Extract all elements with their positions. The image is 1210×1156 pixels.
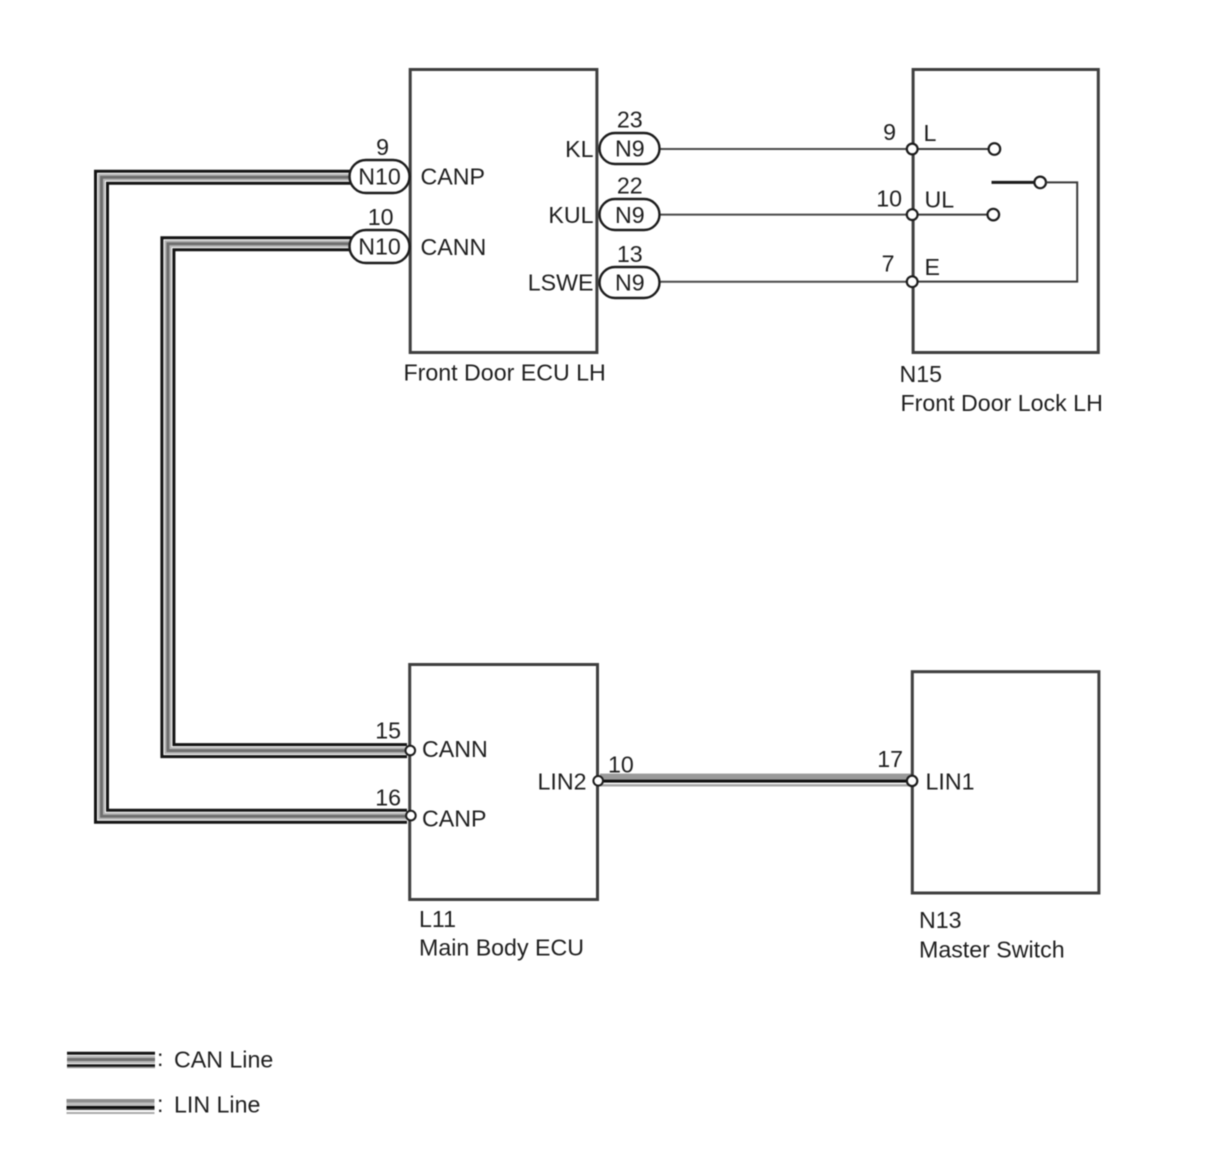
node fixed contact circle L <box>989 143 1001 155</box>
svg-text:15: 15 <box>375 718 401 744</box>
svg-text:22: 22 <box>617 173 643 199</box>
legend CAN line symbol <box>67 1052 155 1068</box>
box Front Door Lock LH N15 <box>913 70 1098 353</box>
svg-text:9: 9 <box>376 134 389 160</box>
svg-text:CANP: CANP <box>422 806 486 832</box>
svg-text:16: 16 <box>375 785 401 811</box>
svg-text:9: 9 <box>883 119 896 145</box>
pin circle 10 LIN2 on Main Body ECU <box>593 776 603 786</box>
svg-text:KL: KL <box>565 136 593 162</box>
svg-text:N13: N13 <box>919 907 962 933</box>
switch arm (movable contact) of door lock switch <box>992 181 1035 184</box>
connector oval N9 pin 23 KL <box>600 133 660 164</box>
svg-text:23: 23 <box>617 107 643 133</box>
pin circle 15 CANN on Main Body ECU <box>406 746 416 756</box>
box Main Body ECU L11 <box>410 665 598 900</box>
svg-text:L11: L11 <box>419 906 456 932</box>
legend CAN line tail shade <box>67 1067 155 1069</box>
svg-text:LSWE: LSWE <box>528 270 594 296</box>
svg-text:N10: N10 <box>358 234 401 260</box>
connector oval N10 pin 9 CANP <box>350 160 410 193</box>
box Front Door ECU LH <box>410 70 597 353</box>
svg-text:E: E <box>925 254 940 280</box>
wire door lock: terminal L to fixed contact <box>913 148 989 150</box>
wire LSWE: Front Door ECU LSWE to Front Door Lock terminal 7 E <box>658 281 912 283</box>
svg-text:LIN1: LIN1 <box>926 769 975 795</box>
wire LIN run: Main Body ECU LIN2 to Master Switch LIN1 <box>600 774 911 787</box>
pin circle 16 CANP on Main Body ECU <box>406 811 416 821</box>
svg-text:CAN Line: CAN Line <box>174 1047 273 1073</box>
svg-text:7: 7 <box>882 251 895 277</box>
connector oval N9 pin 13 LSWE <box>600 267 660 298</box>
wire CAN CANN run: Front Door ECU pin 10 to Main Body ECU pin 15 <box>168 244 407 751</box>
wire KL: Front Door ECU KL to Front Door Lock terminal 9 L <box>658 148 912 150</box>
node fixed contact circle UL <box>988 209 1000 221</box>
svg-text:N9: N9 <box>615 202 645 228</box>
svg-text:UL: UL <box>925 187 955 213</box>
svg-text:10: 10 <box>368 204 394 230</box>
connector oval N9 pin 22 KUL <box>600 199 660 230</box>
legend LIN line symbol <box>67 1099 155 1114</box>
pin circle 17 LIN1 on Master Switch <box>907 776 917 786</box>
svg-text::: : <box>157 1045 163 1071</box>
svg-text:LIN Line: LIN Line <box>174 1092 260 1118</box>
svg-text:10: 10 <box>876 186 902 212</box>
box Master Switch N13 <box>912 672 1099 893</box>
svg-text:CANN: CANN <box>421 234 487 260</box>
terminal circle 9 L on Front Door Lock <box>907 144 918 155</box>
terminal circle 10 UL on Front Door Lock <box>907 209 918 220</box>
svg-text:KUL: KUL <box>548 202 593 228</box>
svg-text:N10: N10 <box>358 164 401 190</box>
svg-text:LIN2: LIN2 <box>538 769 587 795</box>
svg-text:N9: N9 <box>615 136 645 162</box>
svg-text:Front Door Lock LH: Front Door Lock LH <box>901 390 1103 416</box>
node switch pivot circle <box>1034 177 1046 189</box>
svg-text:Front Door ECU LH: Front Door ECU LH <box>404 360 606 386</box>
svg-text:CANN: CANN <box>422 736 488 762</box>
svg-text:CANP: CANP <box>421 164 485 190</box>
svg-text:N9: N9 <box>615 270 645 296</box>
wire KUL: Front Door ECU KUL to Front Door Lock terminal 10 UL <box>658 214 912 216</box>
wire door lock: pivot to terminal E <box>913 182 1077 281</box>
svg-text:N15: N15 <box>900 361 943 387</box>
terminal circle 7 E on Front Door Lock <box>907 276 918 287</box>
svg-text::: : <box>157 1091 163 1117</box>
svg-text:Master Switch: Master Switch <box>919 937 1065 963</box>
wire CAN CANP run: Front Door ECU pin 9 to Main Body ECU pin 16 <box>102 177 408 816</box>
svg-text:L: L <box>924 120 937 146</box>
svg-text:Main Body ECU: Main Body ECU <box>419 935 584 961</box>
wire door lock: terminal UL to fixed contact <box>913 214 987 216</box>
connector oval N10 pin 10 CANN <box>350 230 410 263</box>
svg-text:17: 17 <box>877 746 903 772</box>
svg-text:10: 10 <box>608 752 634 778</box>
svg-text:13: 13 <box>617 241 643 267</box>
